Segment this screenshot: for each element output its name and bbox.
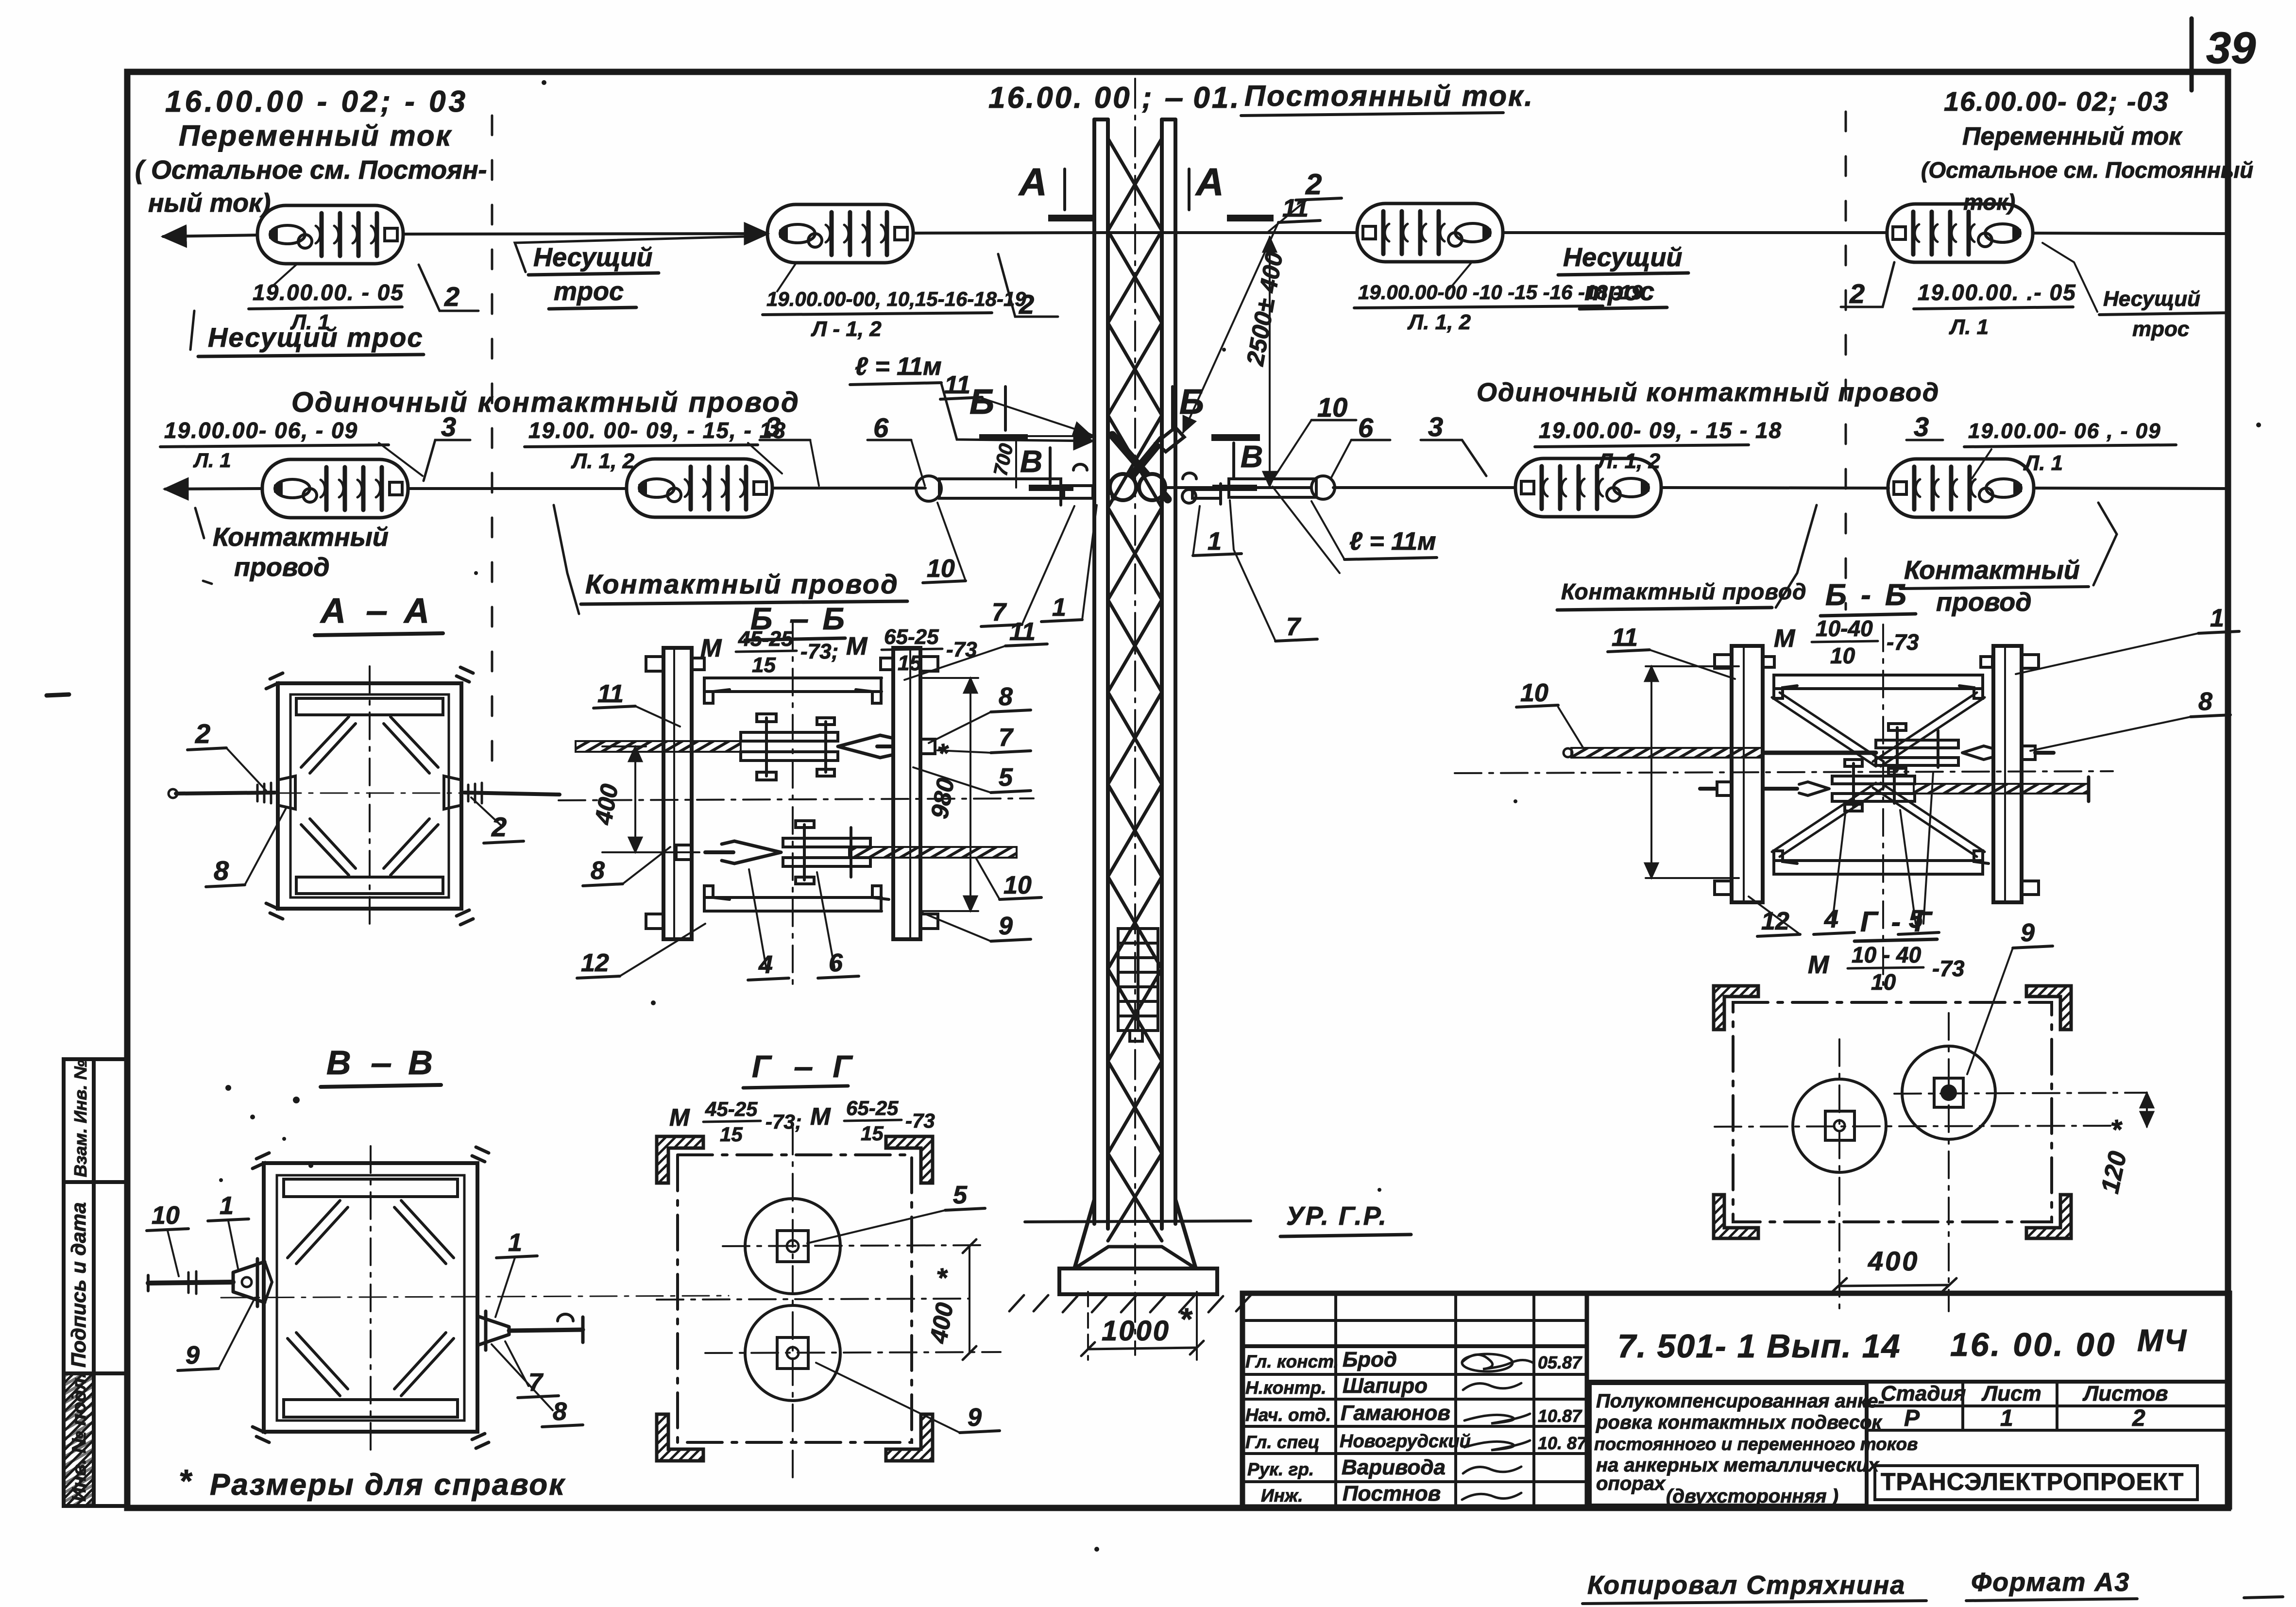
plate bolts bbox=[1715, 655, 2039, 895]
ground hatching bbox=[1009, 1295, 1251, 1312]
svg-text:Несущий: Несущий bbox=[533, 243, 653, 272]
svg-text:980: 980 bbox=[926, 776, 960, 821]
svg-text:3: 3 bbox=[765, 411, 781, 442]
svg-text:65-25: 65-25 bbox=[846, 1097, 899, 1119]
svg-text:В ‒ В: В ‒ В bbox=[326, 1044, 438, 1082]
svg-text:М: М bbox=[1808, 951, 1830, 979]
svg-text:10: 10 bbox=[1520, 679, 1548, 707]
svg-text:16. 00. 00: 16. 00. 00 bbox=[1950, 1326, 2116, 1363]
svg-text:Контактный провод: Контактный провод bbox=[1561, 579, 1807, 604]
svg-text:Лист: Лист bbox=[1981, 1382, 2041, 1405]
svg-text:19.00.00- 06 , - 09: 19.00.00- 06 , - 09 bbox=[1968, 419, 2161, 443]
eye circles (right Г-Г) bbox=[1793, 1079, 1886, 1172]
svg-text:Л - 1, 2: Л - 1, 2 bbox=[811, 317, 882, 341]
svg-text:1: 1 bbox=[508, 1229, 522, 1257]
svg-text:45-25: 45-25 bbox=[705, 1098, 758, 1120]
svg-text:*: * bbox=[931, 1267, 963, 1284]
svg-text:05.87: 05.87 bbox=[1538, 1353, 1582, 1372]
page number 39 bbox=[2190, 18, 2194, 90]
section A-A top chord bbox=[296, 698, 443, 715]
section Г-Г phantom square bbox=[678, 1155, 912, 1442]
svg-text:Стадия: Стадия bbox=[1881, 1382, 1966, 1405]
svg-text:А: А bbox=[1018, 160, 1047, 203]
svg-text:М: М bbox=[846, 632, 868, 660]
centrelines (right Б-Б) bbox=[1882, 625, 1884, 985]
svg-text:1: 1 bbox=[1052, 593, 1066, 622]
title block columns bbox=[1336, 1293, 1587, 1507]
insulator string: bottom far-right bbox=[1888, 459, 2034, 517]
svg-text:А: А bbox=[1195, 160, 1224, 203]
svg-text:7: 7 bbox=[992, 598, 1007, 626]
svg-text:9: 9 bbox=[186, 1341, 200, 1370]
svg-text:МЧ: МЧ bbox=[2137, 1323, 2187, 1358]
svg-text:Контактный провод: Контактный провод bbox=[585, 569, 899, 599]
svg-text:10.87: 10.87 bbox=[1538, 1406, 1582, 1426]
svg-text:Л. 1: Л. 1 bbox=[2023, 451, 2063, 475]
upper clamp plates bbox=[741, 714, 838, 780]
svg-text:Гл. спец: Гл. спец bbox=[1245, 1432, 1320, 1452]
signature scribbles bbox=[1462, 1354, 1534, 1500]
svg-text:8: 8 bbox=[2198, 688, 2212, 716]
svg-text:7. 501- 1 Вып. 14: 7. 501- 1 Вып. 14 bbox=[1617, 1328, 1901, 1365]
svg-text:1: 1 bbox=[2210, 604, 2224, 632]
svg-text:Брод: Брод bbox=[1343, 1348, 1397, 1371]
sleeve on contact wire right of mast bbox=[1229, 479, 1316, 497]
svg-text:3: 3 bbox=[1914, 411, 1929, 442]
vertical dashed separator left bbox=[491, 116, 493, 782]
svg-text:*: * bbox=[1179, 1302, 1193, 1336]
svg-text:1: 1 bbox=[220, 1192, 234, 1220]
Стадия Лист Листов grid bbox=[1867, 1382, 2229, 1507]
svg-text:УР. Г.Р.: УР. Г.Р. bbox=[1286, 1201, 1388, 1231]
section A-A corner braces bbox=[301, 717, 438, 875]
svg-text:Листов: Листов bbox=[2082, 1382, 2168, 1405]
svg-text:Б - Б: Б - Б bbox=[1825, 578, 1909, 612]
svg-text:Инв. № подл.: Инв. № подл. bbox=[68, 1372, 90, 1502]
svg-text:8: 8 bbox=[591, 857, 605, 885]
svg-text:Копировал Стряхнина: Копировал Стряхнина bbox=[1587, 1571, 1905, 1600]
svg-text:Л. 1, 2: Л. 1, 2 bbox=[571, 449, 635, 473]
section Б-Б right plate bbox=[893, 648, 920, 939]
svg-text:19.00.00- 09, - 15 - 18: 19.00.00- 09, - 15 - 18 bbox=[1539, 418, 1782, 443]
svg-text:6: 6 bbox=[829, 949, 843, 977]
svg-text:Одиночный контактный провод: Одиночный контактный провод bbox=[1477, 378, 1939, 407]
svg-text:-73;: -73; bbox=[765, 1110, 802, 1133]
svg-text:19.00. 00- 09, - 15, - 18: 19.00. 00- 09, - 15, - 18 bbox=[528, 418, 786, 443]
svg-text:19.00.00. .- 05: 19.00.00. .- 05 bbox=[1918, 280, 2076, 305]
svg-text:Гл. конст.: Гл. конст. bbox=[1245, 1352, 1339, 1371]
mast cross bracing bbox=[1108, 138, 1162, 1241]
lower anchor rod exiting right bbox=[1914, 784, 2089, 794]
section B-B corner braces bbox=[288, 1201, 454, 1396]
svg-text:65-25: 65-25 bbox=[884, 625, 939, 649]
section B-B right anchor bbox=[477, 1316, 509, 1345]
svg-text:2: 2 bbox=[2132, 1405, 2145, 1431]
svg-text:Контактный: Контактный bbox=[1904, 556, 2080, 585]
svg-text:19.00.00- 06, - 09: 19.00.00- 06, - 09 bbox=[164, 418, 358, 443]
svg-text:ℓ = 11м: ℓ = 11м bbox=[855, 353, 942, 381]
mast centreline bbox=[1134, 79, 1136, 1355]
svg-text:2: 2 bbox=[1849, 278, 1865, 309]
svg-text:Переменный ток: Переменный ток bbox=[1962, 122, 2183, 151]
insulator string: bottom far-left bbox=[262, 459, 408, 518]
svg-text:В: В bbox=[1020, 444, 1042, 479]
title text box bbox=[1590, 1383, 1867, 1506]
svg-text:провод: провод bbox=[234, 553, 330, 582]
svg-text:16.00. 00 ; ‒ 01.: 16.00. 00 ; ‒ 01. bbox=[988, 81, 1241, 115]
svg-text:10: 10 bbox=[1317, 392, 1347, 423]
clamp hardware left of mast bbox=[1061, 464, 1093, 505]
svg-text:ℓ = 11м: ℓ = 11м bbox=[1349, 527, 1436, 556]
svg-text:19.00.00-00, 10,15-16-18-19: 19.00.00-00, 10,15-16-18-19 bbox=[766, 288, 1026, 310]
section Г-Г corner angles bbox=[657, 1136, 933, 1461]
section Б-Б scale note М45-25/15-73; М65-25/15-73 bbox=[700, 625, 977, 677]
section A-A frame bbox=[278, 683, 461, 909]
upper anchor rod entering from left bbox=[1571, 748, 1763, 758]
svg-text:10: 10 bbox=[1003, 871, 1032, 899]
section Б-Б right: right plate bbox=[1993, 646, 2022, 902]
insulator string: top far-right bbox=[1887, 204, 2033, 262]
section Б-Б right: left plate bbox=[1732, 646, 1763, 902]
left stamp sidebar bbox=[64, 1059, 127, 1506]
svg-text:Н.контр.: Н.контр. bbox=[1245, 1378, 1326, 1398]
upper wedge bbox=[838, 735, 893, 758]
svg-text:2: 2 bbox=[491, 812, 507, 842]
carrying cable (несущий трос) level wire bbox=[163, 233, 2226, 237]
svg-text:Постоянный ток.: Постоянный ток. bbox=[1244, 80, 1534, 112]
svg-text:7: 7 bbox=[999, 724, 1014, 752]
svg-text:400: 400 bbox=[925, 1301, 959, 1346]
insulator string: bottom centre-right bbox=[1515, 458, 1661, 517]
svg-text:10-40: 10-40 bbox=[1816, 616, 1873, 641]
svg-text:10: 10 bbox=[1871, 969, 1896, 995]
section B-B bottom chord bbox=[284, 1400, 458, 1417]
svg-text:Несущий: Несущий bbox=[2103, 287, 2200, 311]
svg-text:11: 11 bbox=[1282, 194, 1309, 222]
svg-text:2500± 400: 2500± 400 bbox=[1242, 250, 1288, 368]
svg-text:Контактный: Контактный bbox=[213, 523, 389, 552]
svg-text:Подпись и дата: Подпись и дата bbox=[67, 1202, 90, 1368]
svg-text:Гамаюнов: Гамаюнов bbox=[1341, 1401, 1450, 1425]
section B-B frame bbox=[264, 1163, 477, 1432]
section Г-Г (right) phantom square bbox=[1733, 1002, 2052, 1222]
section Б-Б plate bolts bbox=[646, 657, 938, 929]
svg-text:16.00.00- 02; -03: 16.00.00- 02; -03 bbox=[1944, 86, 2169, 117]
section Б-Б upper rod (carrying cable anchor) bbox=[576, 741, 741, 752]
bottom channel bbox=[1774, 851, 1989, 874]
section Б-Б centrelines bbox=[792, 623, 794, 986]
left margin tick bbox=[47, 694, 69, 695]
svg-text:опорах: опорах bbox=[1596, 1473, 1666, 1494]
svg-text:М: М bbox=[1774, 625, 1796, 653]
svg-text:Несущий трос: Несущий трос bbox=[208, 322, 424, 353]
svg-text:Рук. гр.: Рук. гр. bbox=[1247, 1459, 1314, 1479]
section A-A bottom chord bbox=[296, 877, 443, 894]
section Б-Б bottom channel bbox=[704, 886, 889, 911]
svg-text:Л. 1, 2: Л. 1, 2 bbox=[1597, 449, 1661, 473]
title block outer bbox=[1242, 1293, 2229, 1507]
svg-text:Л. 1: Л. 1 bbox=[193, 449, 231, 472]
top channel bbox=[1774, 675, 1983, 698]
section Г-Г (right) scale note bbox=[1808, 942, 1965, 995]
svg-text:4: 4 bbox=[1824, 905, 1838, 933]
svg-text:Р: Р bbox=[1904, 1405, 1920, 1431]
insulator string: bottom centre-left bbox=[627, 459, 772, 517]
svg-text:10 - 40: 10 - 40 bbox=[1852, 942, 1922, 967]
svg-text:120: 120 bbox=[2096, 1149, 2132, 1196]
dimension line (right Б-Б left side) bbox=[1650, 666, 1652, 878]
svg-text:провод: провод bbox=[1936, 588, 2032, 617]
lattice mast bbox=[1094, 119, 1175, 1229]
svg-text:Формат А3: Формат А3 bbox=[1971, 1568, 2130, 1597]
svg-text:Несущий: Несущий bbox=[1563, 243, 1683, 272]
svg-text:Инж.: Инж. bbox=[1261, 1486, 1303, 1506]
lower wedge bbox=[722, 841, 781, 863]
svg-text:постоянного и переменного токо: постоянного и переменного токов bbox=[1594, 1434, 1918, 1454]
corner angles (right Г-Г) bbox=[1714, 986, 2071, 1238]
section A-A wall anchors bbox=[278, 776, 295, 809]
svg-text:1: 1 bbox=[2000, 1405, 2013, 1431]
svg-text:ТРАНСЭЛЕКТРОПРОЕКТ: ТРАНСЭЛЕКТРОПРОЕКТ bbox=[1881, 1468, 2184, 1495]
pin hardware right of mast bbox=[1182, 473, 1221, 504]
section B-B corner hatch tabs bbox=[253, 1147, 489, 1448]
insulator string: top centre-right bbox=[1357, 203, 1503, 262]
section B-B left anchor rod bbox=[148, 1282, 233, 1283]
svg-text:1000: 1000 bbox=[1102, 1315, 1170, 1347]
sidebar hatch bottom cell bbox=[65, 1375, 92, 1505]
centrelines (right Г-Г) bbox=[1838, 1039, 1840, 1311]
svg-text:8: 8 bbox=[999, 683, 1013, 711]
svg-text:Одиночный контактный провод: Одиночный контактный провод bbox=[291, 387, 800, 418]
section Б-Б top channel bbox=[704, 678, 882, 703]
section Б-Б lower rod (contact wire anchor) bbox=[849, 847, 1017, 858]
svg-text:-73: -73 bbox=[1932, 956, 1965, 981]
svg-text:10: 10 bbox=[1830, 643, 1855, 668]
svg-text:2: 2 bbox=[1019, 289, 1034, 320]
svg-text:Б: Б bbox=[969, 383, 994, 422]
svg-text:Взам. Инв. №: Взам. Инв. № bbox=[70, 1060, 90, 1177]
svg-text:3: 3 bbox=[1428, 411, 1443, 442]
svg-text:(двухсторонняя ): (двухсторонняя ) bbox=[1666, 1486, 1838, 1507]
svg-text:Переменный ток: Переменный ток bbox=[179, 119, 452, 152]
svg-text:9: 9 bbox=[2021, 919, 2035, 947]
svg-text:2: 2 bbox=[195, 718, 210, 749]
svg-text:400: 400 bbox=[590, 782, 624, 827]
svg-text:8: 8 bbox=[553, 1398, 567, 1426]
svg-text:45-25: 45-25 bbox=[738, 627, 793, 651]
svg-text:трос: трос bbox=[1584, 277, 1654, 306]
svg-text:Шапиро: Шапиро bbox=[1343, 1374, 1428, 1398]
svg-text:(Остальное см. Постоянный: (Остальное см. Постоянный bbox=[1921, 157, 2253, 183]
svg-text:12: 12 bbox=[1761, 907, 1789, 935]
section Б-Б left plate bbox=[663, 648, 692, 939]
svg-text:*: * bbox=[2105, 1117, 2138, 1136]
svg-text:5: 5 bbox=[999, 763, 1013, 792]
upper clamp (right Б-Б) bbox=[1876, 724, 1958, 775]
svg-text:-73: -73 bbox=[1887, 629, 1919, 655]
section B-B centrelines bbox=[370, 1146, 372, 1450]
svg-text:10: 10 bbox=[152, 1201, 180, 1230]
svg-text:9: 9 bbox=[999, 912, 1013, 940]
ground level line УР.Г.Р. bbox=[1025, 1221, 1251, 1222]
svg-text:ный ток): ный ток) bbox=[148, 188, 271, 218]
section A-A centrelines bbox=[369, 666, 371, 927]
svg-text:Новогрудский: Новогрудский bbox=[1340, 1431, 1471, 1452]
svg-text:ток): ток) bbox=[1963, 189, 2015, 215]
svg-text:В: В bbox=[1241, 439, 1263, 474]
diagonal bracing bbox=[1772, 693, 1985, 857]
svg-text:400: 400 bbox=[1868, 1246, 1919, 1276]
svg-text:( Остальное см. Постоян-: ( Остальное см. Постоян- bbox=[135, 155, 487, 185]
svg-text:трос: трос bbox=[2132, 317, 2189, 341]
svg-text:12: 12 bbox=[581, 949, 609, 977]
svg-text:11: 11 bbox=[1612, 624, 1638, 652]
svg-text:9: 9 bbox=[968, 1404, 982, 1432]
svg-text:Полукомпенсированная анке-: Полукомпенсированная анке- bbox=[1596, 1390, 1885, 1412]
section B-B left clamp bbox=[233, 1262, 265, 1303]
svg-text:А ‒ А: А ‒ А bbox=[320, 592, 434, 630]
svg-text:15: 15 bbox=[752, 653, 776, 677]
section B-B top chord bbox=[284, 1179, 458, 1197]
svg-text:11: 11 bbox=[944, 371, 970, 399]
mast base pedestal bbox=[1074, 1247, 1196, 1269]
svg-text:39: 39 bbox=[2206, 23, 2256, 73]
svg-text:10: 10 bbox=[927, 555, 955, 583]
svg-text:Размеры для справок: Размеры для справок bbox=[210, 1468, 566, 1502]
svg-text:М: М bbox=[810, 1103, 831, 1130]
svg-text:11: 11 bbox=[597, 680, 624, 708]
section A-A wire bbox=[176, 793, 275, 794]
svg-text:*: * bbox=[179, 1463, 193, 1499]
mast ladder bbox=[1118, 929, 1158, 1031]
vertical dashed separator right bbox=[1845, 112, 1847, 609]
svg-text:700: 700 bbox=[990, 441, 1018, 477]
svg-text:Г ‒ Г: Г ‒ Г bbox=[752, 1049, 859, 1084]
svg-text:трос: трос bbox=[554, 277, 624, 306]
sleeve on contact wire left of mast bbox=[916, 476, 941, 501]
svg-text:1: 1 bbox=[1208, 527, 1222, 556]
svg-text:16.00.00 - 02; - 03: 16.00.00 - 02; - 03 bbox=[165, 85, 468, 118]
svg-text:6: 6 bbox=[1358, 412, 1374, 443]
svg-text:Г - Г: Г - Г bbox=[1860, 906, 1935, 938]
insulator string: top far-left bbox=[257, 205, 403, 264]
svg-text:3: 3 bbox=[441, 411, 456, 442]
svg-text:10. 87: 10. 87 bbox=[1538, 1433, 1587, 1453]
svg-text:5: 5 bbox=[953, 1181, 968, 1209]
anchor straps inside mast at contact level bbox=[1110, 427, 1184, 500]
svg-text:Нач. отд.: Нач. отд. bbox=[1245, 1405, 1331, 1425]
section A-A corner hatch tabs bbox=[266, 667, 473, 925]
svg-text:15: 15 bbox=[861, 1122, 884, 1145]
svg-text:Варивода: Варивода bbox=[1342, 1455, 1446, 1479]
svg-text:ровка контактных подвесок: ровка контактных подвесок bbox=[1596, 1412, 1883, 1433]
section Г-Г eye circles bbox=[745, 1199, 840, 1294]
svg-text:-73: -73 bbox=[905, 1109, 935, 1132]
svg-text:8: 8 bbox=[214, 855, 229, 886]
svg-text:Л. 1, 2: Л. 1, 2 bbox=[1407, 310, 1471, 334]
section Г-Г centrelines bbox=[792, 1128, 794, 1477]
contact wire level bbox=[165, 488, 2227, 489]
title block rows bbox=[1242, 1320, 1587, 1482]
svg-text:М: М bbox=[669, 1104, 690, 1131]
svg-text:7: 7 bbox=[1286, 613, 1301, 641]
svg-text:-73;: -73; bbox=[800, 640, 838, 663]
insulator string: top centre-left bbox=[767, 204, 913, 263]
svg-text:6: 6 bbox=[873, 412, 889, 443]
svg-text:Постнов: Постнов bbox=[1343, 1482, 1441, 1506]
svg-text:Л. 1: Л. 1 bbox=[1949, 315, 1989, 339]
svg-text:2: 2 bbox=[444, 281, 459, 312]
section Г-Г scale note bbox=[669, 1097, 935, 1146]
lower clamp (right Б-Б) bbox=[1832, 760, 1915, 811]
section Б-Б (right) scale note М 10-40/10 -73 bbox=[1774, 616, 1919, 668]
svg-text:11: 11 bbox=[1009, 618, 1036, 646]
lower clamp bbox=[783, 821, 870, 884]
svg-text:15: 15 bbox=[720, 1123, 743, 1146]
